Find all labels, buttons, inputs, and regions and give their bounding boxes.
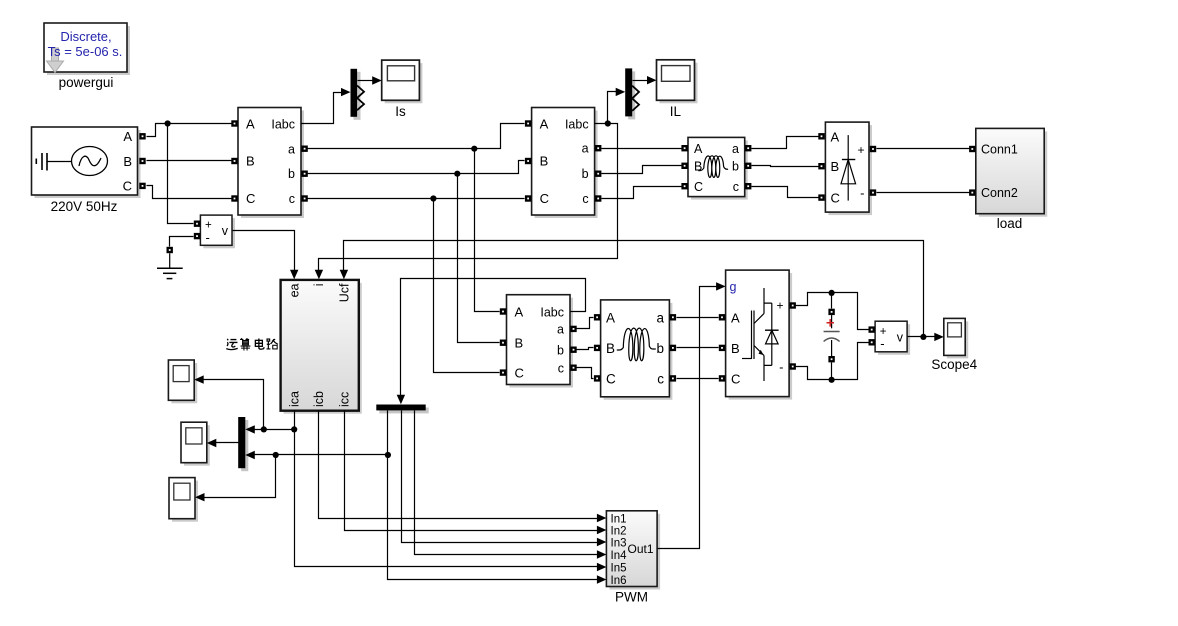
port VI2.A (525, 120, 531, 126)
svg-text:v: v (897, 330, 904, 344)
svg-text:A: A (606, 310, 615, 325)
wire VM1.v to ea input (233, 231, 299, 280)
port source.C (139, 183, 145, 189)
svg-text:In4: In4 (611, 550, 628, 562)
wire VI1.Iabc to mux M1 (301, 88, 351, 124)
svg-text:Ts = 5e-06 s.: Ts = 5e-06 s. (48, 44, 123, 59)
svg-text:B: B (731, 341, 740, 356)
IGBT bridge U1 (726, 270, 793, 400)
svg-text:a: a (732, 142, 739, 156)
svg-text:B: B (515, 336, 524, 351)
wire source.A to VI1.A with tap (147, 120, 232, 136)
port U1.minus (790, 363, 796, 369)
wire ica to PWM In5 with tap (291, 411, 606, 572)
wire VI1.b to VI2.B with tap (308, 161, 525, 177)
wire tap a down to VI3.A (475, 149, 500, 312)
wire L1.b to rect.B (752, 166, 819, 167)
port VM1.minus (194, 233, 200, 239)
port VI3.c (570, 365, 576, 371)
port VI3.C (500, 369, 506, 375)
port rect.B (818, 163, 824, 169)
port U1.B (719, 345, 725, 351)
wire VI2.Iabc branch to i input (315, 124, 618, 280)
wire VI1.c to VI2.C with tap (308, 195, 525, 201)
svg-text:C: C (831, 191, 840, 206)
svg-text:In2: In2 (611, 525, 627, 537)
wire VI1.a to VI2.A with tap (308, 124, 525, 152)
svg-text:C: C (731, 371, 740, 386)
three-phase V-I measurement block 1 (238, 108, 304, 219)
svg-text:c: c (733, 180, 739, 194)
port L2.a (670, 314, 676, 320)
load subsystem block (976, 128, 1047, 216)
svg-text:A: A (540, 116, 549, 131)
svg-text:Conn1: Conn1 (981, 142, 1018, 156)
wire source.B to VI1.B (147, 160, 232, 162)
svg-text:-: - (206, 230, 210, 245)
mux M1 (351, 69, 365, 120)
wire source.C to VI1.C (147, 186, 232, 199)
scope S1 (168, 360, 197, 403)
svg-text:Scope4: Scope4 (931, 357, 977, 372)
scope S3 (169, 478, 198, 522)
voltage measurement VM1 (200, 215, 235, 248)
svg-text:In5: In5 (611, 562, 627, 574)
svg-text:B: B (540, 153, 549, 168)
svg-text:b: b (582, 167, 589, 181)
svg-text:Iabc: Iabc (565, 117, 589, 131)
wire M4 tap to mux M3 input2 (245, 451, 387, 459)
svg-text:A: A (123, 129, 132, 144)
svg-text:IL: IL (670, 104, 682, 119)
capacitor C1 (824, 309, 840, 363)
wire C1 bottom (831, 363, 833, 380)
port L2.c (670, 375, 676, 381)
port VI3.A (500, 308, 506, 314)
port VI3.b (570, 347, 576, 353)
svg-text:powergui: powergui (59, 75, 114, 90)
port VM2.plus (869, 326, 875, 332)
svg-text:In3: In3 (611, 537, 627, 549)
port source.B (139, 158, 145, 164)
svg-text:Iabc: Iabc (540, 305, 564, 319)
port VI2.B (525, 158, 531, 164)
wire VI2.c to L1.C (602, 187, 682, 199)
wire ica tap to mux M3 input1 (245, 425, 294, 433)
svg-text:a: a (582, 141, 589, 155)
svg-text:Ucf: Ucf (337, 283, 351, 302)
wire icc to PWM In2 (345, 411, 607, 535)
wire VI2.a to L1.A (602, 148, 682, 150)
port rect.A (818, 133, 824, 139)
wire C1 top (831, 293, 833, 309)
wire rect.plus to load.Conn1 (877, 148, 970, 150)
port L2.B (594, 345, 600, 351)
scope Is (382, 60, 423, 103)
svg-text:+: + (776, 298, 783, 312)
port rect.C (818, 194, 824, 200)
port L1.a (745, 145, 751, 151)
wire L1.a to rect.A (752, 137, 819, 149)
port VM2.minus (869, 339, 875, 345)
diode rectifier bridge (825, 122, 872, 215)
wire tap to scope S1 (194, 375, 263, 429)
three-phase inductor L2 (601, 300, 673, 400)
svg-text:A: A (731, 310, 740, 325)
wire rect.minus to load.Conn2 (877, 192, 970, 194)
svg-text:B: B (123, 154, 132, 169)
svg-text:C: C (246, 191, 255, 206)
svg-text:a: a (557, 323, 564, 337)
three-phase V-I measurement block 2 (532, 108, 598, 219)
svg-text:C: C (606, 371, 616, 386)
svg-text:ica: ica (288, 391, 302, 407)
ground G1 (157, 247, 183, 279)
svg-text:A: A (246, 116, 255, 131)
port U1.plus (790, 302, 796, 308)
svg-text:c: c (582, 192, 588, 206)
svg-text:icb: icb (312, 391, 326, 407)
wire icb to PWM In1 (319, 411, 607, 523)
port source.A (139, 133, 145, 139)
svg-text:Is: Is (395, 104, 406, 119)
three-phase inductor L1 (688, 137, 748, 199)
scope S2 (181, 422, 210, 466)
svg-text:b: b (557, 344, 564, 358)
port load.Conn1 (969, 146, 975, 152)
powergui block (44, 23, 130, 75)
port VI3.a (570, 326, 576, 332)
wire tap c down to VI3.C (434, 199, 500, 373)
svg-text:a: a (288, 142, 295, 156)
voltage measurement VM2 (875, 321, 910, 355)
wire PWM Out1 to U1.g (658, 282, 726, 548)
port rect.minus (870, 189, 876, 195)
svg-text:g: g (730, 280, 737, 294)
wire mux M2 to scope IL (633, 76, 657, 84)
port VI1.a (301, 146, 307, 152)
svg-text:ea: ea (288, 283, 302, 297)
port U1.C (719, 375, 725, 381)
port rect.plus (870, 146, 876, 152)
wire Ucf feedback from VM2.v (340, 241, 924, 337)
compute subsystem 运算电路 (281, 280, 362, 414)
svg-text:-: - (779, 360, 783, 375)
svg-text:-: - (880, 336, 884, 351)
wire mux M1 to scope Is (358, 76, 382, 84)
wire L2.b to U1.B (677, 347, 719, 349)
svg-text:C: C (515, 365, 524, 380)
svg-text:220V 50Hz: 220V 50Hz (51, 199, 118, 214)
wire mux M4 out1 to PWM In6 with tap (385, 411, 607, 584)
port VI2.a (595, 145, 601, 151)
port L1.B (681, 163, 687, 169)
svg-text:Iabc: Iabc (271, 117, 295, 131)
port L1.c (745, 183, 751, 189)
port VI1.A (231, 120, 237, 126)
wire VM2.v to Scope4 (908, 333, 944, 341)
wire VI3.a to L2.A (577, 318, 594, 329)
svg-text:b: b (288, 167, 295, 181)
label 运算电路 (drawn strokes) (226, 339, 237, 350)
port VM1.plus (194, 221, 200, 227)
scope IL (657, 60, 698, 104)
port L1.C (681, 183, 687, 189)
svg-text:c: c (558, 362, 564, 376)
wire L1.c to rect.C (752, 187, 819, 198)
svg-text:A: A (831, 129, 840, 144)
svg-text:Out1: Out1 (627, 542, 653, 556)
svg-text:load: load (997, 216, 1023, 231)
port L1.b (745, 163, 751, 169)
wire mux M4 out3 to PWM In4 (415, 411, 607, 559)
three-phase V-I measurement block 3 (507, 295, 574, 388)
svg-text:c: c (289, 192, 295, 206)
wire tap A down to VM1.plus (168, 124, 194, 224)
svg-text:Discrete,: Discrete, (60, 29, 111, 44)
port VI1.c (301, 195, 307, 201)
mux M2 (625, 68, 639, 119)
wire VI2.Iabc to mux M2 (595, 88, 626, 127)
svg-text:C: C (694, 180, 703, 194)
svg-text:icc: icc (337, 392, 351, 407)
port VI1.b (301, 171, 307, 177)
port L1.A (681, 145, 687, 151)
svg-text:C: C (123, 179, 132, 194)
wire L2.c to U1.C (677, 378, 719, 380)
svg-text:+: + (857, 143, 864, 157)
port VI2.b (595, 171, 601, 177)
svg-text:B: B (246, 153, 255, 168)
wire U1.minus to C1 and VM2.minus (796, 343, 869, 383)
wire mux M4 out2 to PWM In3 (402, 411, 607, 547)
svg-text:In1: In1 (611, 513, 627, 525)
wire VM1.minus to ground G1 (170, 237, 194, 247)
svg-text:b: b (656, 341, 664, 356)
svg-text:A: A (694, 142, 703, 156)
svg-text:v: v (222, 224, 229, 238)
mux M4 (horizontal demux) (376, 405, 428, 414)
wire VI3.c to L2.C (577, 368, 594, 379)
wire mux M3 out to scope S2 (207, 439, 239, 447)
scope Scope4 (944, 318, 968, 358)
svg-text:Conn2: Conn2 (981, 186, 1018, 200)
port load.Conn2 (969, 189, 975, 195)
svg-text:B: B (606, 341, 615, 356)
wire tap to scope S3 (195, 455, 276, 502)
port VI2.C (525, 195, 531, 201)
wire VI2.b to L1.B (602, 166, 682, 174)
wire VI3.b to L2.B (577, 348, 594, 350)
svg-text:c: c (657, 371, 664, 386)
port U1.A (719, 314, 725, 320)
svg-text:b: b (732, 160, 739, 174)
svg-text:B: B (831, 159, 840, 174)
svg-text:i: i (312, 284, 326, 287)
port L2.A (594, 314, 600, 320)
PWM subsystem block (606, 511, 660, 590)
mux M3 (mirrored) (238, 417, 248, 471)
wire VI3.Iabc to mux M4 (397, 279, 586, 405)
svg-text:PWM: PWM (615, 590, 648, 605)
port VI2.c (595, 195, 601, 201)
port L2.b (670, 345, 676, 351)
wire tap b down to VI3.B (458, 174, 500, 343)
port VI1.B (231, 158, 237, 164)
label C1 polarity + (827, 319, 835, 327)
port VI1.C (231, 195, 237, 201)
wire U1.plus to C1 and VM2.plus (796, 290, 869, 330)
port L2.C (594, 375, 600, 381)
svg-text:In6: In6 (611, 575, 627, 587)
svg-text:-: - (860, 185, 864, 200)
port VI3.B (500, 340, 506, 346)
svg-text:a: a (656, 310, 664, 325)
wire L2.a to U1.A (677, 317, 719, 319)
svg-text:B: B (694, 160, 702, 174)
svg-text:A: A (515, 304, 524, 319)
three-phase source 220V 50Hz (32, 127, 141, 198)
svg-text:C: C (540, 191, 549, 206)
